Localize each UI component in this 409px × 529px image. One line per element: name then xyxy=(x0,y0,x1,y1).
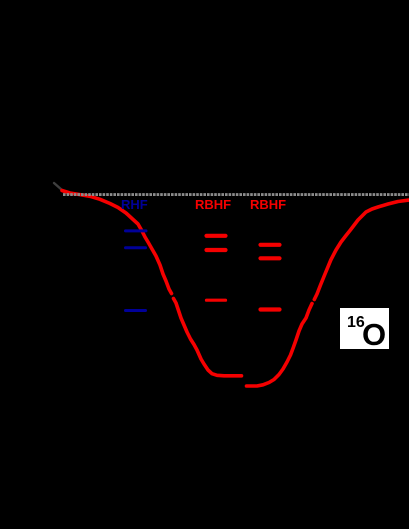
RHF level 1s1/2 (blue) xyxy=(126,309,146,312)
potential curve right-bottom segment xyxy=(247,304,313,387)
RBHF(mid) level 1p1/2 (red) xyxy=(207,234,226,238)
nucleus label box 16O xyxy=(340,308,389,349)
potential curve left-bottom segment xyxy=(174,299,242,376)
potential curve left start (faint) xyxy=(54,183,62,190)
RHF level 1p3/2 (blue) xyxy=(126,246,146,249)
RBHF(mid) level 1s1/2 (red) xyxy=(207,299,226,302)
RBHF(right) level 1p3/2 (red) xyxy=(261,256,280,260)
potential curve left branch xyxy=(62,191,172,294)
label RBHF middle (red) xyxy=(195,197,231,212)
RHF level 1p1/2 (blue) xyxy=(126,229,147,232)
RBHF(mid) level 1p3/2 (red) xyxy=(207,248,226,252)
label RHF (blue) xyxy=(121,197,148,212)
label RBHF right (red) xyxy=(250,197,286,212)
potential curve right branch xyxy=(314,200,409,300)
zero-energy dashed line xyxy=(63,193,409,196)
RBHF(right) level 1p1/2 (red) xyxy=(261,243,280,247)
RBHF(right) level 1s1/2 (red) xyxy=(261,307,280,311)
